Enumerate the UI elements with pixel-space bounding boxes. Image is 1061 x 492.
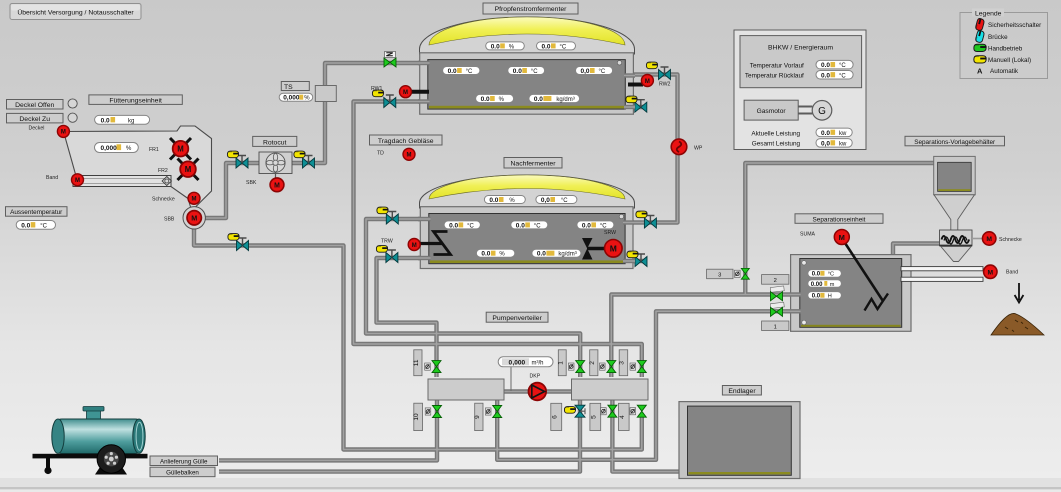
motor SRW	[605, 240, 623, 258]
agitator SRW shaft	[587, 247, 606, 250]
svg-text:Pfropfenstromfermenter: Pfropfenstromfermenter	[495, 6, 568, 13]
mixer FR1 X arms	[170, 138, 191, 160]
valve 10 (green)	[433, 406, 442, 418]
Gasmotor box	[744, 100, 798, 120]
svg-text:0.0: 0.0	[21, 222, 30, 229]
rotocut body	[259, 152, 292, 174]
svg-text:%: %	[499, 97, 505, 103]
rotocut label	[253, 136, 297, 146]
svg-text:0.0: 0.0	[821, 130, 830, 137]
svg-text:4: 4	[619, 415, 626, 419]
display BHKW vorlauf	[816, 60, 853, 69]
Deckel Zu label	[7, 113, 64, 123]
Deckel Offen lamp	[68, 99, 77, 108]
fermenter F1 label	[483, 3, 578, 14]
fermenter F1 dome	[420, 17, 635, 54]
display F1 dome degC	[537, 42, 576, 51]
display sep temp	[808, 270, 842, 278]
endlager inner tank	[688, 406, 792, 475]
svg-text:0.0: 0.0	[537, 251, 546, 258]
fermenter F2 gas lens	[429, 175, 625, 199]
display F2 density	[532, 249, 581, 258]
rotocut motor stem	[275, 172, 277, 179]
svg-text:6: 6	[551, 415, 558, 419]
svg-text:0.0: 0.0	[481, 251, 490, 258]
mixer FR2 X arms	[178, 159, 199, 181]
svg-text:0.0: 0.0	[101, 117, 110, 124]
TS junction box	[315, 86, 336, 102]
display sep level m	[808, 280, 842, 288]
svg-text:Fütterungseinheit: Fütterungseinheit	[109, 97, 162, 104]
Fuetterungseinheit label	[89, 95, 182, 105]
valve 5 (green)	[608, 405, 617, 417]
motor RW1	[400, 86, 412, 98]
mini icon valve 5	[601, 408, 607, 415]
motor SUMA	[834, 230, 849, 245]
display flow m3h	[498, 357, 553, 367]
generator link	[798, 107, 812, 114]
valve fermenter bottom-left (teal)	[384, 95, 396, 108]
display feed weight kg	[95, 115, 150, 124]
svg-text:0.0: 0.0	[821, 72, 830, 79]
hand manual SBB line	[228, 234, 239, 241]
mini icon valve 9	[485, 408, 491, 415]
band end roller	[162, 177, 171, 186]
legend hand cyan	[975, 30, 985, 43]
svg-text:5: 5	[590, 415, 597, 419]
BHKW outer box	[734, 30, 866, 150]
pump DKP	[529, 383, 547, 401]
display feed percent	[95, 143, 139, 153]
motor RW1 shaft	[409, 90, 429, 94]
svg-text:Endlager: Endlager	[728, 388, 756, 395]
endlager sludge line	[689, 472, 791, 474]
svg-text:Übersicht Versorgung / Notauss: Übersicht Versorgung / Notausschalter	[17, 8, 134, 16]
Deckel Offen label	[7, 100, 64, 110]
svg-text:Güllebalken: Güllebalken	[166, 470, 199, 477]
port box 2	[589, 350, 598, 376]
svg-text:m³/h: m³/h	[532, 360, 544, 366]
svg-text:SUMA: SUMA	[800, 232, 816, 238]
svg-text:Sicherheitsschalter: Sicherheitsschalter	[988, 22, 1041, 29]
mini icon valve 10	[425, 408, 431, 415]
Guellebalken label	[150, 467, 215, 477]
svg-text:0,000: 0,000	[101, 145, 118, 152]
hand manual NF bottom-left	[376, 246, 387, 253]
port box 6	[551, 403, 562, 430]
svg-text:Aussentemperatur: Aussentemperatur	[10, 209, 63, 216]
band conveyor	[73, 176, 171, 187]
valve sep 2 (green)	[771, 292, 783, 301]
mini icon valve 3	[630, 363, 636, 370]
fermenter F1 corner dot	[617, 61, 621, 65]
legend frame	[960, 13, 1048, 79]
legend hand green	[974, 44, 986, 51]
hand manual SBK right	[294, 151, 305, 158]
svg-text:%: %	[509, 198, 515, 204]
fermenter F2 heater shaft	[419, 242, 443, 245]
fermenter F1 bottom sludge line	[429, 106, 624, 109]
svg-text:3: 3	[718, 273, 721, 279]
truck hatch cap	[87, 409, 101, 419]
svg-text:1: 1	[774, 324, 777, 330]
svg-text:0,000: 0,000	[283, 95, 300, 102]
separation tank outer frame	[791, 255, 911, 332]
valve nachfermenter bottom-right (teal)	[635, 254, 647, 267]
fermenter F2 outer frame	[420, 207, 633, 269]
pipe network outer stroke	[194, 63, 940, 472]
svg-text:10: 10	[413, 413, 420, 421]
svg-text:0.0: 0.0	[513, 68, 522, 75]
fermenter F2 bottom sludge line	[430, 260, 624, 263]
svg-text:Deckel: Deckel	[29, 126, 45, 132]
svg-text:%: %	[126, 146, 132, 152]
valve sep 1 (green)	[771, 307, 783, 316]
display F2 dome degC	[536, 196, 577, 205]
svg-text:3: 3	[619, 361, 626, 365]
hand manual RW2 line	[646, 62, 657, 69]
agitator SUMA blade	[865, 294, 889, 311]
svg-text:Schnecke: Schnecke	[999, 237, 1022, 243]
svg-text:Gasmotor: Gasmotor	[757, 108, 787, 115]
sep icon 2	[770, 286, 784, 292]
port box 4	[619, 403, 630, 430]
svg-text:RW2: RW2	[659, 82, 671, 88]
display F1 dome %	[486, 42, 525, 51]
valve RW2 line (teal)	[659, 67, 671, 80]
svg-text:Temperatur Rücklauf: Temperatur Rücklauf	[745, 72, 804, 79]
svg-text:Rotocut: Rotocut	[263, 139, 287, 146]
valve nachfermenter bottom-left (teal)	[386, 250, 398, 263]
arrow to pile	[1015, 283, 1024, 303]
valve 6 (teal)	[575, 405, 585, 417]
endlager label	[722, 386, 761, 396]
svg-text:BHKW / Energieraum: BHKW / Energieraum	[768, 45, 833, 52]
legend hand red	[975, 18, 985, 31]
svg-text:Band: Band	[1006, 270, 1018, 276]
svg-text:G: G	[818, 106, 826, 117]
agitator SUMA shaft	[845, 243, 883, 301]
valve 9 (green)	[493, 406, 502, 418]
motor FR2	[180, 161, 196, 177]
pipe network inner highlight	[194, 63, 940, 472]
svg-text:°C: °C	[839, 73, 846, 79]
fermenter F1 gas lens	[429, 17, 625, 45]
port box 11	[413, 350, 422, 376]
rotocut rotor	[266, 153, 285, 172]
hand manual fermenter bottom-right	[626, 96, 637, 103]
fermenter F1 outer frame	[420, 53, 634, 114]
mini icon valve 11	[425, 363, 431, 370]
svg-text:SBB: SBB	[164, 217, 175, 223]
truck wheel	[97, 445, 125, 473]
display Aussentemperatur	[16, 221, 55, 230]
svg-text:Legende: Legende	[975, 10, 1002, 17]
valve 3 (green)	[637, 361, 646, 373]
svg-text:Brücke: Brücke	[988, 34, 1008, 41]
pump WP	[671, 139, 687, 155]
svg-text:Band: Band	[46, 175, 58, 181]
separation label	[795, 214, 883, 224]
motor TD	[403, 148, 415, 160]
svg-text:0,0: 0,0	[541, 197, 550, 204]
svg-text:TS: TS	[284, 84, 293, 91]
svg-text:0.0: 0.0	[812, 294, 821, 300]
svg-text:kw: kw	[839, 141, 847, 147]
motor RW2 shaft	[628, 83, 643, 87]
fermenter F1 inner tank	[428, 60, 626, 110]
svg-text:Handbetrieb: Handbetrieb	[988, 46, 1023, 53]
svg-text:Temperatur Vorlauf: Temperatur Vorlauf	[750, 62, 804, 69]
vorlage sludge line	[938, 189, 970, 191]
solids pile	[991, 313, 1044, 335]
fermenter F2 dome	[420, 175, 635, 208]
display F2 temp3	[577, 221, 614, 230]
svg-text:1: 1	[557, 361, 564, 365]
display F2 dome %	[484, 196, 525, 205]
display BHKW gesamt	[816, 139, 852, 148]
svg-text:Nachfermenter: Nachfermenter	[511, 161, 557, 168]
svg-text:TD: TD	[377, 151, 384, 157]
display F1 temp2	[508, 67, 545, 76]
pipe stubs over frames	[418, 63, 801, 311]
fermenter F2 inner tank	[429, 214, 625, 264]
svg-text:TRW: TRW	[381, 239, 393, 245]
svg-text:°C: °C	[839, 63, 846, 69]
svg-text:0.0: 0.0	[489, 197, 498, 204]
svg-text:0.0: 0.0	[542, 43, 551, 50]
valve SBK left (teal)	[236, 156, 248, 169]
svg-text:Separationseinheit: Separationseinheit	[813, 216, 866, 223]
legend hand yellow	[974, 56, 986, 63]
hand manual NF top-right	[636, 211, 647, 218]
display BHKW ruecklauf	[816, 71, 853, 80]
svg-text:m: m	[830, 282, 835, 288]
svg-text:Pumpenverteiler: Pumpenverteiler	[492, 315, 542, 322]
svg-text:°C: °C	[534, 223, 541, 229]
svg-text:0.0: 0.0	[534, 96, 543, 103]
svg-text:kg/dm³: kg/dm³	[556, 97, 574, 103]
svg-text:0.0: 0.0	[491, 43, 500, 50]
hand manual NF bottom-right	[627, 251, 638, 258]
svg-text:%: %	[304, 96, 310, 102]
svg-text:°C: °C	[600, 223, 607, 229]
BHKW inner header box	[740, 36, 862, 88]
hand manual valve 6	[564, 407, 575, 414]
mini icon valve 4	[630, 408, 636, 415]
mini icon valve 2	[600, 363, 606, 370]
port box 5	[590, 403, 601, 430]
flow display connector	[510, 366, 512, 391]
truck wheel stand	[95, 467, 127, 475]
tragdach label	[370, 135, 443, 145]
svg-text:°C: °C	[560, 44, 567, 50]
band conveyor bars	[901, 267, 983, 271]
separator screw waves	[942, 236, 970, 243]
svg-text:11: 11	[413, 359, 420, 366]
svg-text:Deckel Zu: Deckel Zu	[19, 116, 50, 123]
svg-text:0.0: 0.0	[821, 62, 830, 69]
display F2 temp2	[511, 221, 548, 230]
footer band	[0, 478, 1061, 487]
agitator SRW propeller	[582, 238, 593, 260]
svg-text:Aktuelle Leistung: Aktuelle Leistung	[751, 130, 800, 137]
motor Band	[984, 265, 997, 278]
svg-text:°C: °C	[531, 69, 538, 75]
display F1 density	[529, 94, 580, 103]
svg-text:0.00: 0.00	[811, 282, 823, 288]
svg-text:Tragdach Gebläse: Tragdach Gebläse	[378, 138, 434, 145]
display TS percent	[279, 93, 313, 102]
svg-text:0.0: 0.0	[582, 222, 591, 229]
svg-text:DKP: DKP	[530, 374, 541, 380]
motor RW2	[641, 75, 653, 87]
port box 3	[619, 350, 628, 376]
svg-text:2: 2	[589, 361, 596, 365]
hand manual SBK left	[227, 151, 238, 158]
sep port box 3	[707, 269, 733, 279]
left manifold	[428, 379, 504, 400]
display F1 temp3	[576, 67, 613, 76]
svg-text:FR1: FR1	[149, 147, 159, 153]
SBB outer ring	[183, 207, 205, 229]
pumpenverteiler label	[486, 312, 548, 322]
svg-text:2: 2	[774, 278, 777, 284]
display sep H	[808, 292, 842, 300]
valve 1 (green)	[576, 361, 585, 373]
valve fermenter bottom-right (teal)	[635, 100, 647, 113]
sep port box 2	[762, 275, 789, 285]
svg-text:Separations-Vorlagebehälter: Separations-Vorlagebehälter	[914, 139, 996, 146]
svg-text:0.0: 0.0	[516, 222, 525, 229]
valve 4 (green)	[637, 405, 646, 417]
svg-text:SRW: SRW	[604, 230, 616, 236]
footer line	[0, 487, 1061, 489]
svg-text:WP: WP	[694, 146, 703, 152]
Anlieferung Guelle label	[150, 456, 218, 466]
svg-text:SBK: SBK	[246, 180, 257, 186]
valve SBB line (teal)	[237, 238, 249, 251]
svg-text:Manuell (Lokal): Manuell (Lokal)	[988, 57, 1031, 64]
Aussentemperatur label	[6, 207, 68, 217]
truck tank body	[53, 419, 144, 454]
svg-text:FR2: FR2	[158, 168, 168, 174]
generator G circle	[812, 101, 832, 121]
right manifold	[572, 379, 649, 400]
hand manual fermenter bottom-left	[372, 90, 383, 97]
mini icon valve 1	[568, 363, 574, 370]
port box 10	[413, 403, 422, 430]
motor Schnecke feed	[188, 192, 200, 204]
hand manual NF top-left	[377, 207, 388, 214]
valve nachfermenter top-right (teal)	[644, 216, 656, 229]
vorlage funnel	[934, 195, 975, 231]
separator screw box	[940, 230, 973, 246]
truck hitch	[46, 458, 50, 468]
endlager outer frame	[679, 402, 800, 479]
display F2 temp1	[444, 221, 480, 230]
svg-text:M: M	[839, 233, 845, 242]
svg-text:Gesamt Leistung: Gesamt Leistung	[752, 140, 801, 147]
sep port box 1	[762, 321, 789, 331]
svg-text:M: M	[610, 243, 617, 253]
valve 2 (green)	[607, 361, 616, 373]
motor SBB	[187, 211, 201, 225]
valve nachfermenter top-left (teal)	[386, 212, 398, 225]
Deckel Zu lamp	[68, 113, 77, 122]
svg-text:0.0: 0.0	[448, 68, 457, 75]
svg-text:,000: ,000	[513, 360, 526, 367]
motor Deckel	[57, 125, 69, 137]
fermenter F2 heating coil	[434, 232, 451, 255]
icon Z above dome valve	[385, 52, 396, 58]
display BHKW aktuelle	[816, 128, 852, 137]
svg-text:%: %	[499, 252, 505, 258]
mini icon sep 3	[735, 270, 741, 277]
svg-text:°C: °C	[828, 272, 834, 278]
valve sep 3 (green)	[741, 268, 749, 279]
motor FR1	[173, 141, 189, 157]
svg-text:0.0: 0.0	[481, 96, 490, 103]
motor TRW	[408, 239, 420, 251]
svg-text:kw: kw	[839, 131, 847, 137]
svg-text:Anlieferung Gülle: Anlieferung Gülle	[160, 459, 208, 466]
motor SBK	[270, 178, 284, 192]
port box 9	[474, 403, 483, 430]
separation tank sludge line	[801, 325, 901, 327]
valve 11 (green)	[432, 361, 441, 373]
display F1 pct	[476, 94, 514, 103]
TS label box	[281, 82, 309, 91]
svg-text:A: A	[977, 67, 983, 76]
svg-text:°C: °C	[40, 223, 47, 229]
fermenter F2 corner dot	[619, 214, 623, 218]
svg-text:H: H	[828, 294, 832, 300]
svg-text:kg: kg	[128, 118, 134, 124]
svg-text:°C: °C	[561, 198, 568, 204]
svg-text:0.0: 0.0	[812, 272, 821, 278]
separator lower funnel	[941, 246, 971, 261]
svg-text:0,0: 0,0	[821, 140, 830, 147]
svg-text:RW1: RW1	[371, 86, 383, 92]
svg-text:°C: °C	[599, 69, 606, 75]
valve SBK right (teal)	[303, 156, 315, 169]
separator motor link	[972, 238, 983, 240]
vorlage inner tank	[938, 162, 972, 191]
valve fermenter inlet dome (green)	[384, 58, 396, 67]
truck chassis	[33, 454, 148, 459]
separation tank inner	[800, 259, 902, 328]
fermenter F2 label	[504, 158, 562, 169]
svg-text:kg/dm³: kg/dm³	[558, 252, 576, 258]
sep icon 1	[770, 302, 784, 308]
svg-text:Schnecke: Schnecke	[152, 197, 175, 203]
display F2 pct	[476, 249, 514, 258]
svg-text:Automatik: Automatik	[990, 68, 1019, 75]
port box 1	[557, 350, 566, 376]
svg-text:0,0: 0,0	[581, 68, 590, 75]
motor separator Schnecke	[982, 232, 995, 245]
display F1 temp1	[443, 67, 480, 76]
svg-text:°C: °C	[466, 69, 473, 75]
svg-text:%: %	[509, 44, 515, 50]
motor Band feed	[72, 174, 84, 186]
separation tank corner dots	[802, 261, 806, 265]
svg-text:Deckel Offen: Deckel Offen	[15, 102, 54, 109]
hopper body	[64, 126, 212, 212]
vorlage outer frame	[934, 156, 976, 194]
svg-text:°C: °C	[467, 223, 474, 229]
